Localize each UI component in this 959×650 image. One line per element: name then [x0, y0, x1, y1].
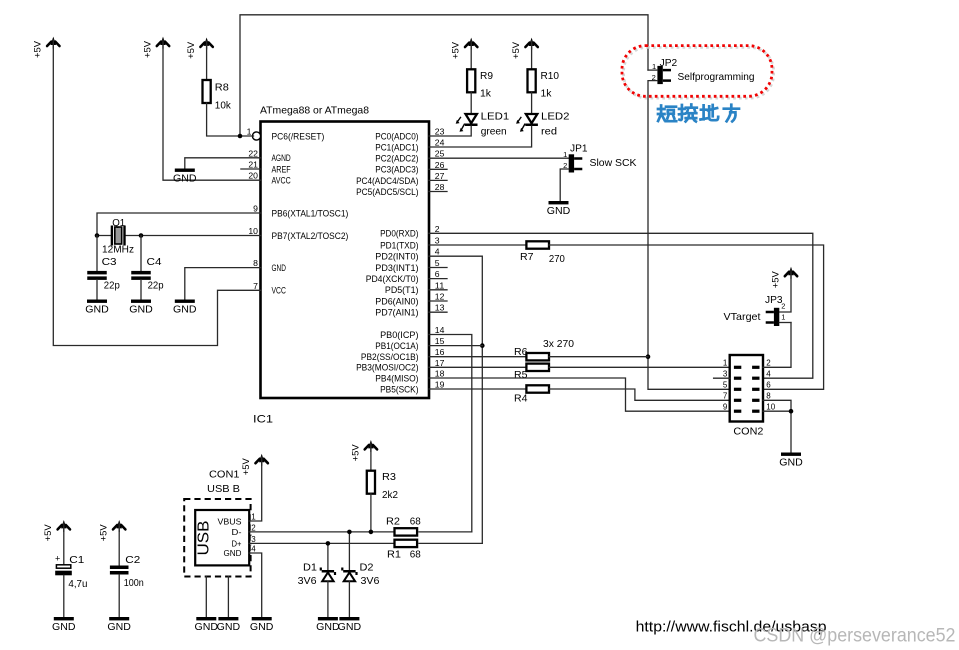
power +5V arrow far left — [33, 37, 60, 58]
diode D2 3V6 zener — [341, 532, 379, 617]
svg-text:10k: 10k — [215, 100, 232, 112]
svg-text:JP1: JP1 — [570, 143, 588, 154]
svg-text:CON2: CON2 — [733, 426, 763, 438]
wire PD2 INT0 down to D+ net — [429, 256, 482, 543]
wire VCC pin7 net — [53, 40, 260, 346]
ground below C2 — [107, 617, 131, 633]
svg-text:5: 5 — [435, 259, 440, 268]
USB pin labels — [218, 516, 242, 558]
svg-text:AVCC: AVCC — [272, 176, 291, 187]
svg-text:PB5(SCK): PB5(SCK) — [380, 384, 418, 395]
svg-text:PC2(ADC2): PC2(ADC2) — [375, 154, 418, 165]
svg-text:22p: 22p — [148, 280, 164, 292]
svg-text:10: 10 — [766, 402, 775, 411]
svg-text:C3: C3 — [102, 256, 117, 268]
wire R3 to D- line — [370, 494, 372, 532]
power +5V arrow C1 — [43, 520, 70, 541]
svg-text:25: 25 — [435, 150, 445, 159]
svg-text:GND: GND — [250, 621, 274, 633]
svg-text:20: 20 — [248, 172, 258, 181]
svg-text:GND: GND — [85, 304, 109, 316]
svg-text:R9: R9 — [480, 70, 493, 82]
svg-text:PD5(T1): PD5(T1) — [385, 285, 419, 296]
wire +5V to JP3 pin2 — [779, 270, 791, 312]
svg-text:D-: D- — [232, 527, 242, 537]
ground USB GND pin — [250, 617, 274, 633]
svg-text:68: 68 — [410, 549, 421, 561]
svg-text:2: 2 — [251, 523, 256, 532]
svg-text:Slow SCK: Slow SCK — [590, 157, 637, 169]
IC U1 body — IC1 ATmega88 or ATmega8 — [253, 105, 429, 426]
svg-text:13: 13 — [435, 304, 445, 313]
svg-text:PB2(SS/OC1B): PB2(SS/OC1B) — [361, 352, 419, 363]
wire AVCC net — [163, 40, 261, 180]
wire D- net — [249, 531, 393, 533]
svg-text:4: 4 — [435, 248, 440, 257]
wire VBUS to +5V — [249, 457, 262, 521]
IC1 right pin numbers — [435, 128, 445, 390]
svg-text:2k2: 2k2 — [382, 489, 398, 501]
power +5V arrow VBUS — [241, 454, 268, 475]
svg-text:8: 8 — [253, 259, 258, 268]
svg-text:1: 1 — [247, 128, 252, 137]
connector CON2 body — [730, 355, 764, 438]
resistor R6 — [429, 346, 549, 361]
svg-text:C4: C4 — [147, 256, 162, 268]
svg-text:CSDN @perseverance52: CSDN @perseverance52 — [754, 626, 956, 647]
svg-text:GND: GND — [217, 621, 241, 633]
ground AGND pin22 — [173, 158, 260, 185]
ground USB shield left — [195, 617, 219, 633]
svg-text:9: 9 — [253, 205, 258, 214]
ground below C1 — [52, 617, 76, 633]
resistor R3 2k2 — [367, 443, 398, 501]
ground below CON2 — [779, 453, 803, 469]
wire CON2 pin10 to ground — [763, 411, 791, 452]
IC1 left pin numbers — [247, 128, 259, 291]
ground below D1 — [316, 617, 340, 633]
svg-text:R2: R2 — [386, 515, 400, 527]
CON2 left pin numbers — [723, 359, 728, 412]
svg-text:4,7u: 4,7u — [68, 578, 87, 590]
svg-text:+5V: +5V — [350, 444, 360, 461]
junction crystal left — [95, 233, 100, 238]
pin 1 inverting bubble — [252, 132, 260, 140]
svg-text:2: 2 — [435, 225, 440, 234]
capacitor C3 22p — [87, 236, 120, 300]
svg-text:1: 1 — [723, 359, 728, 368]
svg-text:17: 17 — [435, 359, 445, 368]
resistor R2 68 — [386, 515, 421, 535]
node label Chinese annotation 短接地方 — [658, 105, 739, 122]
svg-text:PD2(INT0): PD2(INT0) — [375, 252, 418, 263]
svg-text:+5V: +5V — [451, 42, 461, 59]
svg-text:16: 16 — [435, 348, 445, 357]
svg-text:IC1: IC1 — [253, 414, 273, 426]
svg-text:PB3(MOSI/OC2): PB3(MOSI/OC2) — [356, 363, 418, 374]
svg-text:+5V: +5V — [511, 42, 521, 59]
svg-text:6: 6 — [766, 381, 771, 390]
wire R7 to CON2 pin6 — [549, 245, 824, 389]
wire R4 SCK to CON2 pin7 — [549, 389, 730, 400]
wire PB0 down to D- net — [429, 335, 472, 532]
svg-text:GND: GND — [779, 457, 803, 469]
svg-text:100n: 100n — [124, 577, 144, 589]
svg-text:19: 19 — [435, 381, 445, 390]
svg-text:ATmega88 or ATmega8: ATmega88 or ATmega8 — [260, 105, 369, 117]
svg-text:AREF: AREF — [272, 164, 291, 175]
svg-text:PD0(RXD): PD0(RXD) — [380, 229, 418, 240]
svg-text:21: 21 — [248, 161, 258, 170]
power +5V arrow AVCC — [142, 37, 169, 58]
wire JP1 pin2 to ground — [560, 169, 569, 201]
wire D+ net — [249, 542, 393, 544]
wire PB4 MISO to CON2 pin9 — [429, 378, 730, 411]
svg-text:+5V: +5V — [99, 524, 109, 541]
resistor R5 — [429, 364, 549, 382]
svg-text:PC3(ADC3): PC3(ADC3) — [375, 165, 418, 176]
capacitor C4 22p — [131, 236, 163, 300]
svg-text:R4: R4 — [514, 392, 528, 404]
ground below D2 — [338, 617, 362, 633]
power +5V arrow VTarget — [770, 267, 797, 288]
svg-text:JP2: JP2 — [660, 58, 678, 69]
red highlight ellipse around JP2 — [622, 46, 774, 99]
junction JP2 line with R6 line — [646, 354, 651, 359]
svg-text:C1: C1 — [69, 554, 84, 566]
svg-text:28: 28 — [435, 183, 445, 192]
svg-text:5: 5 — [723, 381, 728, 390]
svg-text:9: 9 — [723, 402, 728, 411]
svg-text:Selfprogramming: Selfprogramming — [678, 71, 755, 83]
svg-text:R1: R1 — [387, 549, 401, 561]
svg-text:D+: D+ — [232, 538, 242, 548]
connector CON1 USB B shield — [184, 499, 250, 577]
svg-text:PB1(OC1A): PB1(OC1A) — [375, 341, 418, 352]
wire CON2 pin2 to JP3 — [763, 323, 791, 368]
power +5V arrow C2 — [99, 520, 126, 541]
wire JP2 pin2 down to CON2 pin5 — [648, 81, 730, 390]
svg-text:CON1: CON1 — [209, 469, 240, 481]
svg-text:PC6(/RESET): PC6(/RESET) — [272, 131, 325, 142]
svg-text:11: 11 — [435, 281, 445, 290]
svg-text:3V6: 3V6 — [361, 575, 380, 587]
junction RESET node — [238, 134, 243, 139]
wire CON2 pin3 stub — [714, 377, 730, 379]
svg-text:GND: GND — [173, 173, 197, 185]
USB pin numbers — [251, 513, 257, 554]
svg-text:22p: 22p — [104, 280, 120, 292]
wire PB1 stub — [429, 345, 482, 347]
svg-text:+5V: +5V — [142, 41, 152, 58]
svg-text:22: 22 — [248, 149, 258, 158]
svg-text:3x 270: 3x 270 — [543, 338, 574, 350]
wire USB GND pin — [249, 553, 262, 617]
svg-text:4: 4 — [251, 545, 256, 554]
wire R5 MOSI to CON2 pin1 — [549, 366, 730, 368]
svg-text:3: 3 — [251, 535, 256, 544]
svg-text:+5V: +5V — [43, 524, 53, 541]
svg-text:LED2: LED2 — [541, 111, 570, 123]
wire USB shield left leg — [205, 577, 207, 618]
wire XTAL1 pin9 — [97, 213, 261, 236]
svg-text:26: 26 — [435, 161, 445, 170]
svg-text:PC0(ADC0): PC0(ADC0) — [375, 131, 418, 142]
svg-text:PD6(AIN0): PD6(AIN0) — [375, 296, 418, 307]
wire LED1 to PC0 — [429, 126, 471, 136]
svg-text:PD7(AIN1): PD7(AIN1) — [375, 308, 418, 319]
ground USB shield right — [217, 617, 241, 633]
ground GND pin8 — [173, 268, 260, 316]
svg-text:PD4(XCK/T0): PD4(XCK/T0) — [366, 274, 419, 285]
LED2 red — [516, 92, 570, 137]
wire R6 to JP2 junction — [549, 356, 648, 358]
jumper JP2 Selfprogramming — [652, 58, 755, 84]
svg-text:PC5(ADC5/SCL): PC5(ADC5/SCL) — [356, 187, 418, 198]
svg-text:R5: R5 — [514, 369, 528, 381]
svg-text:R10: R10 — [541, 70, 560, 82]
junction CON2 ground node — [789, 409, 794, 414]
svg-text:GND: GND — [547, 205, 571, 217]
ground below C4 — [129, 300, 153, 316]
svg-text:VCC: VCC — [272, 286, 286, 297]
svg-text:VBUS: VBUS — [218, 516, 242, 526]
wire R8 to RESET node — [207, 103, 254, 136]
svg-text:2: 2 — [781, 302, 785, 311]
svg-text:PB7(XTAL2/TOSC2): PB7(XTAL2/TOSC2) — [272, 231, 349, 242]
svg-text:R8: R8 — [215, 82, 229, 94]
IC1 left pin names — [272, 131, 349, 296]
svg-text:USB B: USB B — [207, 483, 240, 495]
svg-text:GND: GND — [224, 548, 242, 558]
wire USB shield right leg — [227, 577, 229, 618]
crystal Q1 12MHz — [102, 217, 134, 256]
svg-text:GND: GND — [338, 621, 362, 633]
svg-text:+5V: +5V — [33, 41, 43, 58]
svg-text:4: 4 — [766, 369, 771, 378]
wire PD0 RXD to CON2 pin4 — [429, 233, 813, 378]
IC1 unconnected pin stubs — [241, 169, 447, 312]
svg-text:1: 1 — [563, 150, 567, 159]
power +5V arrow LED1 — [451, 38, 478, 59]
svg-text:PD3(INT1): PD3(INT1) — [375, 263, 418, 274]
resistor R8 — [203, 41, 232, 112]
svg-text:270: 270 — [549, 253, 565, 265]
svg-text:GND: GND — [316, 621, 340, 633]
svg-text:C2: C2 — [125, 554, 140, 566]
svg-text:+5V: +5V — [770, 271, 780, 288]
svg-text:+5V: +5V — [186, 42, 196, 59]
junction crystal right — [139, 233, 144, 238]
svg-text:R3: R3 — [382, 471, 396, 483]
svg-text:GND: GND — [272, 263, 286, 274]
LED1 green — [456, 92, 510, 137]
svg-text:R7: R7 — [520, 251, 534, 263]
svg-text:15: 15 — [435, 337, 445, 346]
resistor R7 270 — [429, 241, 565, 264]
svg-text:68: 68 — [410, 515, 421, 527]
svg-text:7: 7 — [723, 392, 728, 401]
resistor R10 1k — [528, 41, 560, 99]
svg-text:18: 18 — [435, 370, 445, 379]
svg-text:PB4(MISO): PB4(MISO) — [375, 373, 418, 384]
svg-text:6: 6 — [435, 270, 440, 279]
svg-text:PC1(ADC1): PC1(ADC1) — [375, 142, 418, 153]
CON2 right pin numbers — [766, 359, 775, 412]
svg-text:PD1(TXD): PD1(TXD) — [380, 240, 418, 251]
capacitor C2 100n — [110, 523, 144, 617]
wire LED2 to PC1 — [429, 126, 532, 147]
wire crystal left leg — [97, 235, 112, 237]
wire top rail into JP2 pin1 — [648, 69, 657, 71]
diode D1 3V6 zener — [298, 543, 337, 617]
svg-text:GND: GND — [107, 621, 131, 633]
jumper JP3 VTarget — [724, 295, 786, 326]
svg-text:24: 24 — [435, 139, 445, 148]
jumper JP1 Slow SCK — [563, 143, 636, 172]
power +5V arrow R3 — [350, 440, 377, 461]
svg-text:PB6(XTAL1/TOSC1): PB6(XTAL1/TOSC1) — [272, 208, 349, 219]
wire R1 to PD2 riser — [419, 542, 482, 544]
svg-text:2: 2 — [766, 359, 771, 368]
svg-text:R6: R6 — [514, 346, 528, 358]
svg-text:D1: D1 — [303, 562, 317, 574]
wire CON2 pin8 to ground — [763, 400, 791, 411]
svg-text:red: red — [541, 125, 557, 137]
svg-text:+: + — [55, 554, 60, 564]
svg-text:LED1: LED1 — [481, 111, 510, 123]
svg-text:PB0(ICP): PB0(ICP) — [380, 330, 418, 341]
svg-text:PC4(ADC4/SDA): PC4(ADC4/SDA) — [356, 176, 418, 187]
svg-text:1k: 1k — [541, 87, 553, 99]
svg-text:12MHz: 12MHz — [102, 244, 134, 256]
svg-text:27: 27 — [435, 172, 445, 181]
svg-text:GND: GND — [173, 304, 197, 316]
IC1 right pin names — [356, 131, 418, 395]
wire XTAL2 pin10 — [125, 235, 261, 237]
svg-text:USB: USB — [196, 521, 213, 556]
svg-text:AGND: AGND — [272, 153, 291, 164]
wire R2 to PB0 riser — [419, 531, 472, 533]
connector CON1 USB B body — [195, 469, 249, 566]
svg-text:14: 14 — [435, 326, 445, 335]
ground below C3 — [85, 300, 109, 316]
svg-text:1k: 1k — [480, 87, 492, 99]
svg-text:Q1: Q1 — [112, 217, 125, 229]
wire PC2 to JP1 — [429, 157, 569, 159]
resistor R9 1k — [467, 41, 493, 99]
svg-text:D2: D2 — [360, 562, 374, 574]
capacitor C1 4,7u electrolytic — [55, 523, 88, 617]
svg-text:+5V: +5V — [241, 458, 251, 475]
wire JP3 pin1 to CON2 pin2 — [779, 322, 791, 324]
junction R3 on D- — [369, 530, 374, 535]
svg-text:VTarget: VTarget — [724, 311, 761, 323]
power +5V arrow for R8 — [186, 38, 213, 59]
svg-text:GND: GND — [52, 621, 76, 633]
svg-text:1: 1 — [781, 312, 785, 321]
resistor R4 — [429, 385, 549, 404]
svg-text:GND: GND — [129, 304, 153, 316]
junction PB1 and INT0 — [480, 343, 485, 348]
svg-text:7: 7 — [253, 282, 258, 291]
ground below JP1 — [547, 201, 571, 217]
svg-text:3V6: 3V6 — [298, 575, 317, 587]
svg-text:3: 3 — [435, 237, 440, 246]
svg-text:8: 8 — [766, 392, 771, 401]
junction D1 on D+ — [326, 541, 331, 546]
svg-text:green: green — [481, 125, 507, 137]
resistor R1 68 — [387, 540, 421, 561]
svg-text:3: 3 — [723, 369, 728, 378]
svg-text:GND: GND — [195, 621, 219, 633]
svg-text:23: 23 — [435, 128, 445, 137]
junction D2 on D- — [347, 530, 352, 535]
svg-text:12: 12 — [435, 293, 445, 302]
svg-text:10: 10 — [248, 227, 258, 236]
svg-text:1: 1 — [251, 513, 256, 522]
wire RESET top rail to JP2 — [240, 15, 648, 136]
power +5V arrow LED2 — [511, 38, 538, 59]
